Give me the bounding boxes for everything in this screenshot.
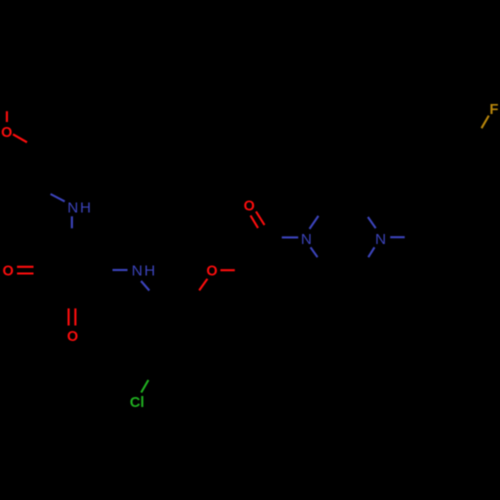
svg-text:O: O	[244, 199, 255, 215]
svg-text:O: O	[206, 264, 217, 280]
svg-text:O: O	[1, 125, 12, 141]
svg-text:N: N	[301, 231, 312, 248]
svg-text:N: N	[375, 231, 386, 248]
svg-text:O: O	[67, 329, 78, 345]
svg-text:F: F	[490, 102, 499, 118]
svg-text:NH: NH	[132, 263, 157, 280]
svg-text:Cl: Cl	[130, 395, 145, 411]
svg-text:NH: NH	[67, 199, 92, 216]
svg-text:O: O	[2, 264, 13, 280]
